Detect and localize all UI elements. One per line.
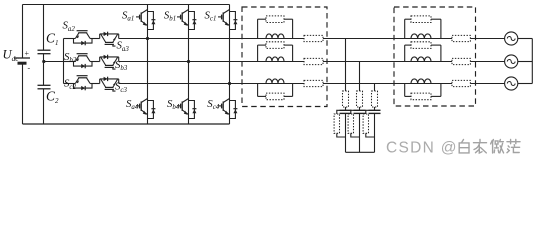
svg-text:CSDN @: CSDN @ [386, 139, 458, 156]
svg-text:-: - [28, 64, 31, 73]
svg-text:+: + [25, 49, 30, 58]
